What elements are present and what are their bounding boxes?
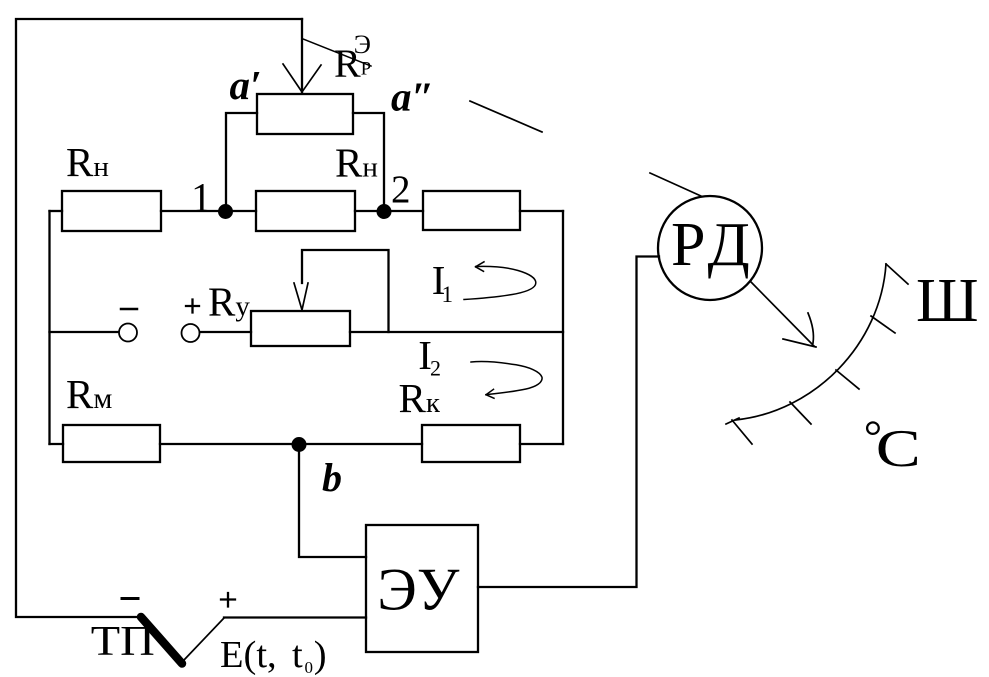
plus sign above plus terminal (186, 300, 199, 313)
svg-text:b: b (322, 455, 342, 500)
resistor R3 body (423, 191, 520, 230)
wire: right vertical of bridge (562, 211, 564, 444)
svg-text:Р: Р (361, 60, 371, 80)
mechanical link segment 2 (650, 173, 701, 196)
scale end stub (726, 418, 739, 424)
scale tick 2 (871, 316, 895, 333)
wire: top supply drop to RP wiper (301, 19, 303, 93)
resistor RK body (422, 425, 520, 462)
pointer arrowhead (783, 313, 816, 347)
rheostat RY wiper arrow (294, 283, 308, 310)
svg-text:2: 2 (391, 168, 411, 211)
wire: RP left end to node 1 (226, 113, 257, 206)
svg-text:1: 1 (442, 282, 454, 307)
wire: left vertical to minus terminal (50, 331, 120, 333)
node 2 junction dot (377, 204, 392, 219)
wire: plus terminal to RY (200, 331, 251, 333)
svg-text:a″: a″ (391, 74, 434, 120)
wire: EU output to motor RD (478, 257, 659, 588)
resistor RH1 body (62, 191, 161, 231)
rheostat RY body (251, 311, 350, 346)
motor RD circle (658, 196, 762, 300)
wire: left vertical to RM (50, 443, 64, 445)
svg-text:ТП: ТП (91, 619, 155, 665)
terminal minus circle (119, 324, 137, 342)
scale tick 4 (790, 402, 811, 424)
svg-text:ЭУ: ЭУ (377, 557, 460, 623)
wire: RM to node b to RK (160, 443, 422, 445)
wire: R3 to right vertical (520, 210, 563, 212)
pointer arrow shaft (751, 282, 814, 346)
wire: RY wiper bracket (302, 250, 389, 332)
svg-text:Э: Э (354, 30, 371, 59)
scale tick 3 (836, 370, 859, 389)
mechanical link segment 1 (470, 101, 542, 132)
svg-text:1: 1 (191, 174, 212, 220)
current loop I1 arrow (464, 266, 536, 299)
wire: RH1 to node1 to RH2 (161, 210, 256, 212)
wire: outer loop top, left, bottom-left (16, 19, 302, 617)
svg-text:Д: Д (708, 211, 750, 279)
resistor RM body (63, 425, 160, 462)
wire: node b down to amplifier EU (299, 444, 366, 557)
svg-text:a′: a′ (230, 62, 262, 108)
wire: RK to right vertical (520, 443, 563, 445)
svg-text:): ) (314, 634, 327, 676)
wire: RH2 to node2 to R3 (355, 210, 423, 212)
node b junction dot (292, 437, 307, 452)
resistor RH2 body (256, 191, 355, 231)
scale tick 1 (886, 264, 908, 284)
scale arc (736, 264, 887, 420)
current loop I2 arrow (471, 361, 542, 394)
svg-text:t: t (292, 634, 303, 676)
wire: left to resistor RH1 (50, 210, 63, 212)
wire: thermocouple thin lead (184, 618, 224, 660)
rheostat RP body (257, 94, 353, 134)
scale tick 5 (732, 420, 752, 444)
minus sign above minus terminal (121, 308, 137, 311)
amplifier EU box (366, 525, 478, 652)
svg-text:Р: Р (671, 211, 705, 279)
svg-text:Ш: Ш (916, 267, 979, 335)
wire: left vertical of bridge (48, 211, 50, 444)
minus sign at thermocouple (122, 597, 138, 600)
svg-text:E(t,: E(t, (220, 634, 277, 676)
thermocouple TP junction (thick) (141, 617, 182, 664)
plus sign at thermocouple (221, 593, 235, 607)
node 1 junction dot (218, 204, 233, 219)
svg-text:С: С (876, 420, 921, 478)
svg-text:2: 2 (430, 356, 441, 381)
wire: RP right end to node 2 (353, 113, 384, 206)
wire: thermocouple plus lead to EU (224, 616, 366, 618)
svg-text:0: 0 (305, 658, 314, 677)
wire: RY output to right vertical (350, 331, 563, 333)
leader line to RP label (303, 39, 371, 66)
terminal plus circle (182, 324, 200, 342)
rheostat RP wiper arrow (283, 64, 321, 92)
